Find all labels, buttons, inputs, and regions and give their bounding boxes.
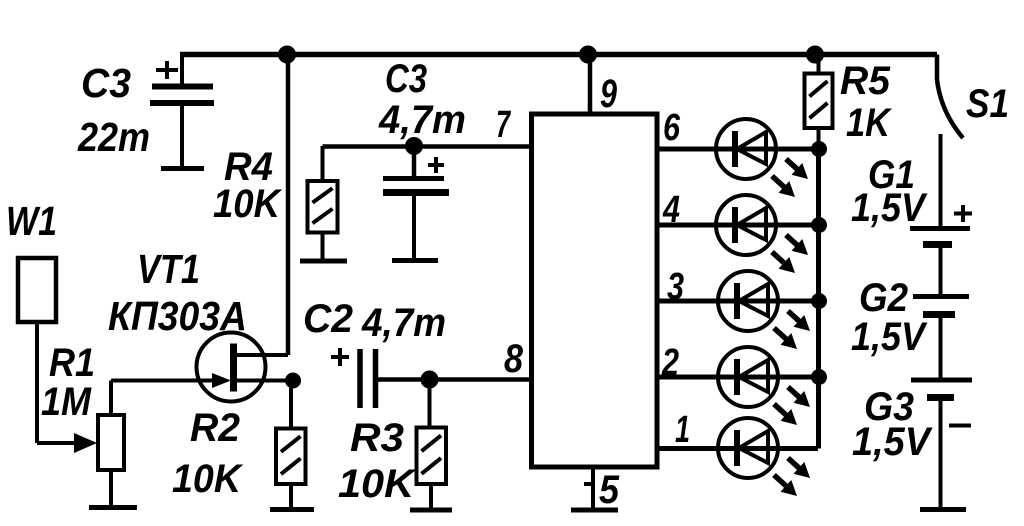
node rail/R5 junction — [806, 46, 824, 64]
svg-text:8: 8 — [504, 337, 524, 381]
node LED row 3 — [811, 293, 827, 309]
node pin7/C3 junction — [405, 137, 423, 155]
svg-text:C2: C2 — [303, 297, 353, 341]
light arrows of LED HL4 (pin 2) — [774, 387, 810, 425]
svg-text:1M: 1M — [41, 380, 93, 424]
light arrows of LED HL5 (pin 1) — [774, 458, 810, 496]
battery G1 — [910, 205, 972, 294]
node rail/R4-drain junction — [278, 46, 296, 64]
node LED row 4 — [811, 217, 827, 233]
svg-text:КП303А: КП303А — [108, 293, 247, 339]
svg-text:2: 2 — [661, 342, 679, 384]
resistor R2 — [276, 429, 306, 485]
LED HL1 (pin 6) — [716, 119, 776, 179]
svg-text:1K: 1K — [846, 101, 893, 145]
svg-text:10K: 10K — [213, 182, 283, 226]
resistor R4 — [308, 181, 338, 233]
capacitor C3 4,7m — [383, 146, 449, 261]
wire pin 2 row — [655, 375, 818, 380]
resistor R1 potentiometer — [89, 381, 214, 508]
svg-text:1,5V: 1,5V — [852, 420, 933, 464]
battery G3 — [911, 380, 972, 510]
svg-text:C3: C3 — [385, 57, 427, 101]
light arrows of LED HL1 (pin 6) — [772, 159, 808, 197]
svg-text:4,7m: 4,7m — [361, 301, 446, 345]
svg-text:3: 3 — [667, 266, 684, 308]
svg-text:5: 5 — [599, 468, 620, 512]
node rail/pin9 junction — [579, 46, 597, 64]
wire pin 3 row — [655, 299, 818, 304]
wire pin 9 — [588, 55, 593, 115]
battery G2 — [913, 297, 969, 379]
svg-text:R3: R3 — [350, 416, 404, 460]
svg-text:R1: R1 — [49, 341, 95, 385]
wire pin 6 row — [655, 147, 818, 152]
svg-text:C3: C3 — [81, 60, 131, 106]
LED HL3 (pin 3) — [718, 271, 778, 331]
node VT1 source junction — [285, 373, 301, 389]
svg-text:R5: R5 — [840, 59, 891, 103]
LED HL5 (pin 1) — [718, 418, 778, 478]
svg-text:10K: 10K — [338, 462, 417, 506]
node C2/R3 junction — [421, 371, 439, 389]
wire pin 1 row — [655, 446, 818, 451]
node LED row 2 — [811, 369, 827, 385]
svg-text:22m: 22m — [77, 114, 150, 160]
resistor R3 — [417, 428, 447, 485]
svg-text:R2: R2 — [190, 406, 240, 450]
wire pin 4 row — [655, 223, 818, 228]
svg-text:4: 4 — [662, 189, 680, 231]
wire rail to R5 — [817, 55, 821, 74]
switch S1 — [937, 55, 963, 227]
capacitor C3 22m — [150, 57, 214, 169]
svg-text:10K: 10K — [172, 457, 244, 501]
wire to pin 8 — [378, 377, 532, 382]
light arrows of LED HL3 (pin 3) — [774, 311, 810, 349]
LED HL4 (pin 2) — [718, 347, 778, 407]
svg-text:6: 6 — [663, 107, 681, 149]
wire to pin 7 — [323, 144, 532, 149]
svg-text:4,7m: 4,7m — [378, 98, 466, 142]
resistor R5 — [805, 74, 833, 129]
svg-text:1,5V: 1,5V — [851, 315, 928, 359]
wire source to R2 — [289, 381, 293, 429]
svg-text:1,5V: 1,5V — [851, 186, 928, 230]
antenna probe W1 — [18, 258, 97, 453]
IC U1 box — [532, 114, 658, 467]
capacitor C2 — [331, 348, 376, 408]
wire to R3 — [428, 380, 432, 428]
wire R5 to LED rail — [817, 128, 821, 149]
wire +rail down to VT1 drain — [286, 55, 291, 356]
pin 5 lead — [571, 467, 618, 510]
svg-text:1: 1 — [675, 409, 690, 451]
wire LED anode rail — [816, 149, 821, 449]
transistor VT1 (JFET) — [197, 333, 294, 402]
svg-text:9: 9 — [600, 72, 618, 116]
node LED row 6 — [811, 141, 827, 157]
svg-text:7: 7 — [496, 104, 511, 146]
wire top +V rail — [180, 52, 937, 58]
svg-text:G2: G2 — [859, 276, 908, 320]
svg-text:VT1: VT1 — [137, 246, 200, 292]
light arrows of LED HL2 (pin 4) — [772, 235, 808, 273]
svg-text:W1: W1 — [6, 198, 57, 244]
LED HL2 (pin 4) — [716, 195, 776, 255]
svg-text:S1: S1 — [966, 82, 1009, 126]
